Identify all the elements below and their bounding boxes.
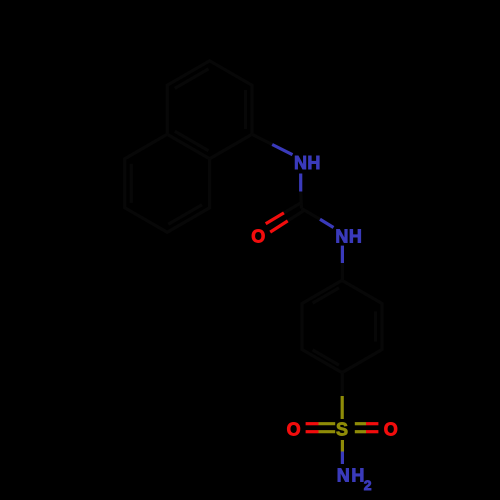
svg-text:H: H: [349, 227, 362, 247]
svg-text:N: N: [294, 153, 307, 173]
svg-text:N: N: [337, 466, 350, 486]
svg-text:N: N: [335, 227, 348, 247]
svg-text:H: H: [307, 153, 320, 173]
svg-text:S: S: [336, 419, 348, 439]
svg-text:O: O: [384, 419, 398, 439]
svg-text:2: 2: [364, 477, 372, 493]
svg-text:H: H: [351, 466, 364, 486]
svg-text:O: O: [287, 419, 301, 439]
svg-text:O: O: [251, 226, 265, 246]
